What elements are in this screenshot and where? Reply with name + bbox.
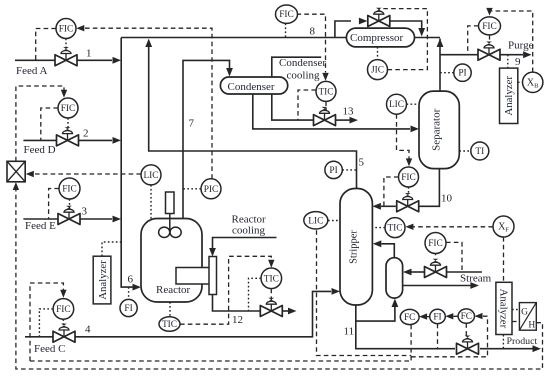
wire signal TIC12 to valve 12 — [270, 289, 272, 300]
node arrow product out — [533, 345, 542, 352]
node arrow into reactor (stream 6) — [133, 284, 142, 291]
wire signal FIC purge measurement tap — [468, 26, 479, 55]
reactor vessel — [141, 219, 202, 303]
node arrow up into reboiler — [392, 299, 399, 308]
svg-text:Reactor: Reactor — [156, 284, 191, 296]
wire signal FIC recycle to TIC condenser — [297, 14, 326, 72]
instrument FIC stream 2 — [58, 98, 78, 118]
svg-text:FIC: FIC — [61, 104, 76, 114]
wire dotted PI8 tap — [440, 72, 454, 74]
node arrow into stripper (stream 4) — [332, 288, 341, 295]
node arrow up into X-box bottom — [13, 182, 19, 190]
instrument TIC cooling 12 — [261, 268, 282, 289]
svg-text:TIC: TIC — [387, 224, 402, 234]
wire dotted FIC4 to valve 4 — [62, 319, 64, 328]
wire separator liquid line 10 — [381, 169, 439, 207]
node arrow into X-box — [26, 171, 34, 177]
node arrow into TIC12 — [268, 260, 274, 268]
wire dotted XB link — [518, 81, 523, 83]
wire compressor bypass loop — [335, 21, 422, 38]
node arrow condensate out — [470, 282, 479, 289]
wire feed D line 2 — [23, 139, 112, 141]
instrument TIC stripper — [385, 218, 405, 238]
wire signal FC product to product valve — [465, 323, 467, 341]
wire signal FIC1 measurement tap — [36, 29, 56, 61]
svg-text:FI: FI — [124, 304, 132, 314]
svg-text:Separator: Separator — [431, 108, 443, 150]
wire reactor cooling outlet line 12 — [213, 295, 289, 312]
svg-text:FIC: FIC — [279, 10, 294, 20]
node arrow into FIC1 — [76, 25, 84, 31]
svg-text:FIC: FIC — [59, 25, 74, 35]
wire feed C line 4 to stripper — [25, 291, 331, 336]
wire signal FC chain arrows — [476, 315, 488, 317]
wire dotted LIC reactor level tap — [150, 185, 152, 219]
instrument PI stripper — [325, 161, 342, 178]
node arrow into FC 11 — [419, 313, 427, 319]
valve 4 feed C — [53, 324, 75, 343]
node arrow into FIC2 — [61, 90, 67, 98]
svg-text:Purge: Purge — [508, 40, 534, 52]
analyzer purge box — [500, 68, 518, 123]
svg-text:TIC: TIC — [162, 320, 177, 330]
valve purge 9 — [478, 42, 500, 61]
valve reactor cooling 12 — [260, 298, 282, 317]
svg-text:FIC: FIC — [62, 185, 77, 195]
node arrow bypass return down — [418, 28, 425, 37]
node arrow into mix line (stream 1) — [113, 57, 122, 64]
svg-text:Compressor: Compressor — [350, 32, 404, 44]
valve 1 feed A — [55, 47, 77, 66]
svg-text:TIC: TIC — [264, 274, 279, 284]
valve compressor bypass — [368, 8, 390, 27]
wire dotted JIC tap — [377, 47, 379, 60]
wire purge line 9 — [440, 54, 523, 56]
wire dotted FIC recycle flow tap — [285, 23, 287, 37]
node arrow cooling water out (13) — [350, 117, 359, 124]
svg-text:FC: FC — [461, 312, 472, 322]
wire separator vapor riser — [439, 39, 441, 92]
instrument TIC condenser — [316, 81, 336, 101]
svg-text:13: 13 — [343, 106, 355, 118]
svg-text:FIC: FIC — [428, 239, 443, 249]
wire signal FIC purge to valve — [489, 35, 491, 43]
wire stripper bottoms product line 11 — [356, 305, 533, 349]
instrument LIC stripper — [304, 212, 328, 229]
G/H ratio box — [519, 303, 536, 331]
svg-text:1: 1 — [86, 48, 92, 60]
wire dotted TIC stripper tap — [372, 227, 385, 229]
compressor — [346, 28, 414, 47]
svg-text:PIC: PIC — [204, 185, 219, 195]
svg-text:FIC: FIC — [482, 22, 497, 32]
wire signal XF to TIC stripper — [407, 226, 493, 228]
svg-text:cooling: cooling — [232, 225, 265, 237]
svg-text:6: 6 — [128, 274, 134, 286]
node arrow into separator — [411, 126, 420, 133]
wire signal JIC to bypass valve — [379, 9, 427, 70]
wire dotted FIC steam to valve — [435, 254, 437, 258]
svg-text:Stream: Stream — [460, 273, 492, 285]
valve separator liquid 10 — [397, 193, 419, 212]
svg-text:FC: FC — [404, 313, 415, 323]
instrument XB analyzer — [523, 72, 543, 92]
analyzer feed box — [93, 256, 111, 304]
svg-text:Analyzer: Analyzer — [503, 76, 515, 116]
instrument LIC separator — [387, 94, 407, 114]
instrument TIC reactor — [159, 317, 180, 332]
wire signal LIC separator to FIC10 — [397, 114, 410, 159]
node arrow cooling out (12) — [288, 308, 297, 315]
wire signal FC drop junction — [410, 325, 412, 361]
instrument LIC reactor — [141, 165, 161, 185]
wire dotted LIC separator tap — [407, 103, 420, 105]
wire dotted TIC12 temperature tap — [249, 278, 262, 311]
wire reactor feed header (stream 6) — [121, 38, 132, 288]
node arrow into stripper from reboiler — [373, 240, 382, 247]
wire signal X-box to FIC2 setpoint — [16, 86, 64, 161]
svg-text:H: H — [528, 321, 535, 331]
svg-text:LIC: LIC — [143, 171, 158, 181]
wire feed E line 3 — [23, 218, 112, 220]
svg-text:FI: FI — [433, 313, 441, 323]
svg-text:3: 3 — [82, 206, 88, 218]
instrument FIC steam — [425, 233, 446, 254]
svg-text:10: 10 — [441, 193, 453, 205]
svg-text:FIC: FIC — [56, 305, 71, 315]
reactor cooling channel — [209, 257, 217, 295]
wire signal feed C cascade loop — [30, 283, 63, 361]
wire recycle header line 8 — [121, 37, 346, 39]
wire signal FIC2 measurement tap — [41, 108, 58, 140]
svg-text:Condenser: Condenser — [279, 57, 326, 69]
wire stripper overhead recycle (stream 5) — [149, 47, 357, 192]
svg-text:8: 8 — [310, 26, 316, 38]
node arrow into stripper (stream 10) — [372, 203, 381, 210]
wire signal FI product to product line — [437, 324, 439, 349]
wire signal XF to product analyzer — [503, 237, 505, 282]
wire signal FIC10 measurement tap — [384, 177, 399, 206]
node arrow into bypass valve — [359, 18, 368, 25]
svg-text:2: 2 — [83, 128, 89, 140]
node arrow cooling into reactor exchanger — [209, 248, 216, 257]
node arrow down into condenser (stream 7) — [226, 68, 233, 77]
instrument PIC reactor — [201, 179, 221, 199]
wire signal TIC reactor to TIC12 cascade — [180, 256, 271, 324]
instrument JIC compressor — [368, 60, 388, 80]
node arrow up into compressor suction — [437, 39, 444, 48]
svg-text:5: 5 — [359, 157, 365, 169]
svg-text:TIC: TIC — [318, 88, 333, 98]
svg-text:LIC: LIC — [389, 100, 404, 110]
wire dotted purge analyzer sample — [507, 55, 509, 68]
node arrow purge out (9) — [523, 51, 532, 58]
wire signal TIC condenser to valve 13 — [325, 101, 327, 111]
svg-text:Feed C: Feed C — [34, 343, 65, 355]
svg-text:FIC: FIC — [401, 173, 416, 183]
stripper vessel — [340, 189, 372, 306]
instrument FIC stream 1 — [56, 19, 76, 39]
wire feed A line 1 — [15, 59, 112, 61]
wire signal XB to FIC purge — [490, 8, 533, 72]
svg-text:Feed D: Feed D — [24, 144, 56, 156]
instrument PI recycle — [454, 64, 471, 81]
stripper reboiler — [386, 258, 403, 298]
wire signal FIC3 measurement tap — [49, 189, 59, 220]
valve 3 feed E — [58, 206, 80, 225]
reactor heat exchanger body — [176, 268, 210, 285]
wire condenser cooling water inlet — [272, 57, 321, 120]
wire compressor suction line — [415, 37, 441, 39]
wire steam condensate out — [403, 285, 471, 287]
valve condenser cooling 13 — [314, 107, 336, 126]
valve steam — [425, 259, 447, 278]
svg-text:9: 9 — [515, 56, 521, 68]
node arrow into FC product — [475, 313, 483, 319]
wire dotted GH box link upper — [512, 309, 519, 311]
separator vessel — [419, 91, 459, 169]
wire signal PIC to FIC1 — [85, 28, 213, 179]
svg-text:PI: PI — [458, 69, 466, 79]
wire reboiler return to stripper — [381, 244, 394, 258]
wire dotted product analyzer sample — [502, 335, 504, 349]
svg-text:Stripper: Stripper — [348, 230, 359, 264]
wire dotted FIC1 to valve 1 — [65, 39, 67, 52]
X ratio mixer box — [7, 161, 25, 182]
wire condenser cooling outlet line 13 — [336, 119, 350, 121]
node arrow into FIC purge — [486, 8, 492, 16]
svg-text:Feed E: Feed E — [25, 220, 56, 232]
svg-text:7: 7 — [189, 118, 195, 130]
svg-text:Analyzer: Analyzer — [97, 260, 109, 300]
svg-text:G: G — [521, 308, 528, 318]
node arrow into TIC condenser — [322, 73, 328, 81]
node arrow up into recycle header (stream 5) — [145, 39, 152, 47]
svg-text:Analyzer: Analyzer — [498, 289, 510, 329]
wire dotted LIC stripper tap — [328, 220, 340, 222]
instrument FIC recycle — [276, 5, 298, 23]
svg-text:TI: TI — [475, 147, 484, 157]
reactor agitator housing — [166, 192, 175, 214]
valve product 11 — [457, 336, 479, 355]
node arrow into FIC4 — [60, 290, 66, 298]
wire condenser outlet to separator — [253, 94, 410, 129]
wire reactor cooling water inlet — [213, 238, 277, 249]
wire dotted FIC3 to valve 3 — [69, 199, 71, 211]
wire dotted PIC pressure tap — [183, 188, 201, 190]
instrument FC stripper bottoms — [400, 309, 419, 324]
svg-text:4: 4 — [85, 324, 91, 336]
svg-text:11: 11 — [344, 326, 355, 338]
wire steam supply line — [412, 271, 482, 273]
wire dotted PI5 tap — [342, 169, 356, 171]
instrument FC product — [458, 309, 474, 323]
node arrow into FI product — [445, 313, 453, 319]
wire signal FIC steam measurement tap — [446, 242, 462, 272]
instrument FIC purge — [479, 17, 501, 35]
wire signal GH box link — [512, 321, 519, 323]
wire dotted TIC condenser to dome — [325, 108, 327, 113]
wire signal TIC condenser measurement tap — [298, 90, 316, 120]
svg-text:Feed A: Feed A — [16, 65, 48, 77]
wire signal outer G/H plant loop — [16, 190, 543, 369]
node arrow into mix line (stream 3) — [113, 216, 122, 223]
svg-text:PI: PI — [329, 166, 337, 176]
svg-text:12: 12 — [232, 314, 243, 326]
instrument XF analyzer — [493, 216, 514, 237]
wire reboiler circulation branch — [356, 307, 395, 321]
condenser — [220, 77, 287, 94]
svg-text:cooling: cooling — [287, 69, 320, 81]
wire dotted FI6 tap — [128, 287, 130, 299]
wire dotted feed analyzer sample — [102, 242, 121, 256]
reactor impeller blades — [159, 227, 170, 237]
instrument FIC stream 3 — [59, 178, 80, 199]
wire dotted TIC reactor bottom tap — [169, 302, 171, 317]
instrument FI stream 6 — [120, 299, 137, 316]
wire dotted FIC4 measurement tap — [39, 309, 53, 337]
svg-text:Product: Product — [507, 336, 538, 347]
svg-text:LIC: LIC — [308, 216, 323, 226]
instrument TI separator — [471, 142, 489, 160]
instrument FI product — [430, 309, 446, 323]
wire signal jog to product FC tap — [411, 316, 487, 357]
node arrow into FIC10 — [406, 158, 412, 166]
instrument FIC separator — [399, 167, 419, 187]
wire dotted TI separator tap — [459, 150, 471, 152]
wire signal feed C loop bottom line — [30, 360, 411, 362]
wire dotted FIC2 to valve 2 — [67, 118, 69, 132]
node arrow steam into reboiler — [403, 269, 412, 276]
analyzer product box — [496, 282, 512, 334]
wire reactor overhead line 7 to condenser — [183, 60, 230, 218]
svg-text:Condenser: Condenser — [228, 81, 275, 93]
node arrow into mix line (stream 2) — [113, 137, 122, 144]
valve 2 feed D — [57, 127, 79, 146]
reactor agitator shaft — [169, 214, 171, 236]
wire signal LIC reactor to X-box — [34, 173, 141, 175]
svg-text:JIC: JIC — [371, 66, 384, 76]
wire dotted FIC10 to valve 10 — [408, 187, 410, 193]
instrument FIC stream 4 — [53, 299, 74, 320]
wire signal LIC stripper down-leg — [317, 230, 412, 355]
node arrow into TIC stripper — [405, 224, 413, 230]
